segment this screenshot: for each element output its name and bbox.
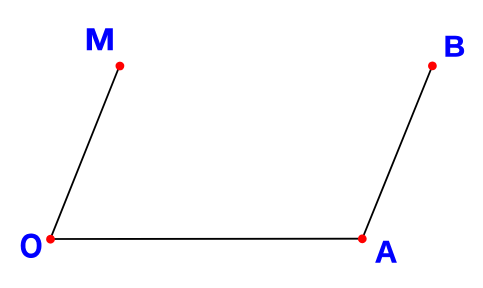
svg-text:M: M — [85, 22, 115, 57]
svg-text:A: A — [375, 235, 398, 270]
svg-text:B: B — [444, 30, 466, 63]
svg-text:O: O — [20, 226, 43, 265]
